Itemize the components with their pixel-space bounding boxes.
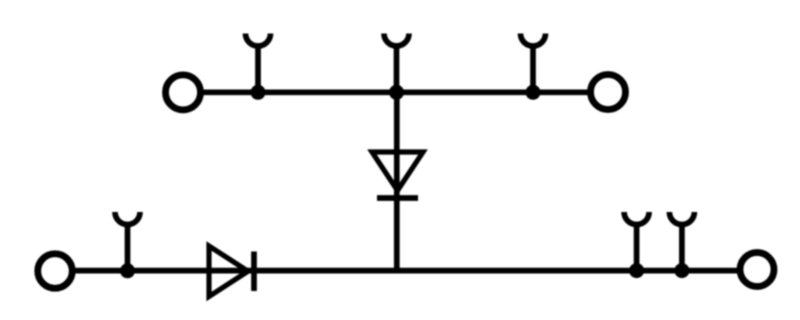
test socket TP1 stem: [255, 45, 261, 93]
test socket TP6 arc: [669, 212, 694, 224]
node junction dot B3: [674, 263, 689, 278]
diode V1 (vertical, cathode down) triangle: [372, 152, 423, 191]
diode V2 (horizontal, cathode right) triangle: [209, 246, 248, 297]
wire bottom rail: [76, 268, 738, 274]
node junction dot B2: [629, 263, 644, 278]
terminal circle P3 (bottom-left): [38, 254, 73, 289]
test socket TP5 arc: [624, 212, 649, 224]
test socket TP4 arc: [115, 212, 140, 224]
test socket TP2 arc: [384, 34, 409, 46]
terminal circle P1 (top-left): [166, 75, 201, 110]
terminal circle P2 (top-right): [591, 75, 626, 110]
wire vertical (top rail to bottom rail): [394, 92, 400, 270]
node junction dot A2: [389, 85, 404, 100]
diode V1 cathode bar: [377, 195, 418, 201]
node junction dot A1: [251, 85, 266, 100]
node junction dot A3: [526, 85, 541, 100]
test socket TP5 stem: [634, 223, 640, 271]
test socket TP3 arc: [521, 34, 546, 46]
test socket TP4 stem: [125, 223, 131, 271]
terminal circle P4 (bottom-right): [740, 253, 774, 287]
test socket TP6 stem: [679, 223, 685, 271]
test socket TP2 stem: [394, 45, 400, 93]
test socket TP3 stem: [530, 45, 536, 93]
node junction dot B1: [120, 263, 135, 278]
diode V2 cathode bar: [251, 252, 257, 292]
wire top rail: [204, 89, 589, 95]
test socket TP1 arc: [246, 34, 271, 46]
